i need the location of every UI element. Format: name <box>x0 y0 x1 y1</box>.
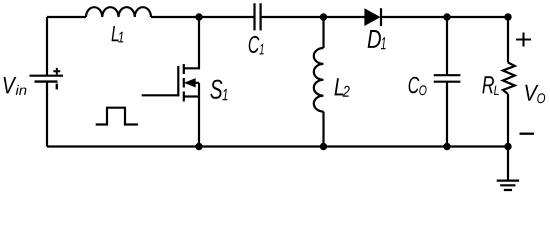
label Vin subscript in <box>16 85 27 95</box>
wire gate lead <box>142 94 179 96</box>
wire top rail L1 to C1 <box>151 16 254 18</box>
transistor S1 channel segments <box>183 64 185 102</box>
capacitor Co top wire <box>446 17 448 75</box>
label D1 subscript 1 <box>381 37 386 49</box>
label C1 main C <box>249 36 260 53</box>
label Co main C <box>409 77 420 94</box>
capacitor Co <box>434 75 461 82</box>
label RL subscript L <box>494 86 499 95</box>
node dot Co top <box>443 13 450 20</box>
inductor L2 top wire <box>322 17 324 48</box>
label Co subscript O <box>419 85 426 95</box>
resistor RL <box>503 63 515 95</box>
label Vin main V <box>4 77 17 93</box>
inductor L2 <box>314 48 324 112</box>
label RL main R <box>482 76 494 93</box>
plus sign output <box>516 33 531 47</box>
label Vo main V <box>525 85 538 101</box>
capacitor C1 <box>255 3 261 30</box>
transistor S1 source stub <box>184 95 199 97</box>
wire left rail lower <box>46 83 48 147</box>
wire source to bottom rail <box>198 83 200 147</box>
node dot L2 top <box>320 13 327 20</box>
resistor RL top wire <box>507 17 509 63</box>
diode D1 <box>365 10 379 25</box>
node dot RL top <box>504 13 511 20</box>
label C1 subscript 1 <box>259 44 263 55</box>
inductor L2 bottom wire <box>322 112 324 147</box>
transistor S1 gate bar <box>177 66 179 96</box>
node dot L2 bottom <box>320 143 327 150</box>
inductor L1 <box>86 7 151 17</box>
label Vo subscript O <box>537 93 545 103</box>
wire left rail upper <box>46 17 48 75</box>
node dot ground <box>504 143 511 150</box>
ground <box>507 147 509 181</box>
node dot Co bottom <box>443 143 450 150</box>
label S1 subscript 1 <box>222 89 227 100</box>
battery Vin <box>30 75 64 77</box>
minus sign output <box>520 133 535 135</box>
label L2 subscript 2 <box>343 86 350 97</box>
label L1 subscript 1 <box>118 32 123 43</box>
gate pulse drive symbol <box>96 108 138 125</box>
label S1 main S <box>210 80 222 99</box>
node dot drain top <box>195 13 202 20</box>
label L1 main L <box>112 26 119 41</box>
resistor RL bottom wire <box>507 94 509 147</box>
transistor S1 drain wire <box>184 17 199 68</box>
wire top rail C1 to D1 <box>262 16 365 18</box>
node dot source bottom <box>195 143 202 150</box>
label L2 main L <box>335 78 344 95</box>
capacitor Co bottom wire <box>446 82 448 147</box>
wire top rail left segment <box>47 16 86 18</box>
transistor S1 body stub with arrow <box>186 82 199 84</box>
label D1 main D <box>368 30 381 48</box>
wire bottom rail <box>47 145 508 147</box>
wire top rail D1 to right corner <box>381 16 508 18</box>
